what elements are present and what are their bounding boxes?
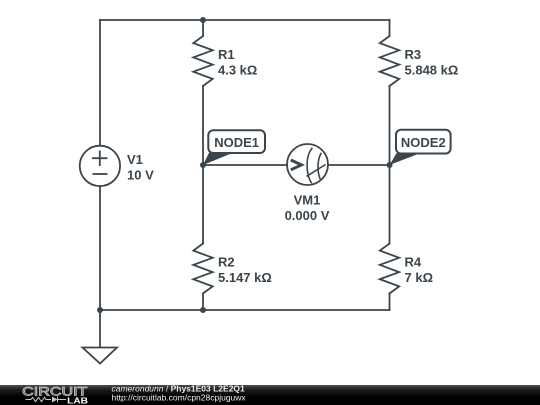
node NODE1 junction dot xyxy=(200,162,206,168)
voltmeter needle line xyxy=(306,165,325,177)
svg-text:LAB: LAB xyxy=(67,396,88,405)
svg-text:NODE2: NODE2 xyxy=(401,135,446,150)
svg-text:10 V: 10 V xyxy=(127,167,154,182)
resistor R4 zigzag xyxy=(380,244,399,294)
footer bar xyxy=(0,385,540,405)
junction dot bottom rail / R2 xyxy=(200,307,206,313)
wire R1 top stub xyxy=(202,20,204,36)
wire R3 to NODE2 xyxy=(389,86,391,165)
node label NODE1 box xyxy=(208,130,265,153)
wire R1 to NODE1 xyxy=(202,86,204,165)
V1 minus sign xyxy=(93,173,106,175)
svg-text:7 kΩ: 7 kΩ xyxy=(405,270,434,285)
resistor R3 zigzag xyxy=(380,36,399,86)
footer logo diode xyxy=(52,397,58,403)
ground symbol xyxy=(83,348,118,364)
voltage source V1 circle xyxy=(80,146,120,186)
voltmeter greater-than glyph xyxy=(291,160,302,170)
svg-text:R1: R1 xyxy=(218,47,235,62)
V1 plus sign xyxy=(93,151,107,165)
svg-text:R2: R2 xyxy=(218,255,235,270)
svg-text:V1: V1 xyxy=(127,152,143,167)
wire left rail top (top rail to V1) xyxy=(99,20,101,146)
junction dot bottom rail / ground xyxy=(97,307,103,313)
svg-text:0.000 V: 0.000 V xyxy=(285,208,330,223)
svg-text:R3: R3 xyxy=(405,47,422,62)
wire NODE1 to voltmeter xyxy=(203,164,287,166)
resistor R1 zigzag xyxy=(193,36,212,86)
voltmeter arc 2 xyxy=(318,154,321,180)
footer logo resistor squiggle xyxy=(26,397,52,401)
svg-text:NODE1: NODE1 xyxy=(214,135,259,150)
svg-text:R4: R4 xyxy=(405,255,422,270)
svg-text:http://circuitlab.com/cpn28cpj: http://circuitlab.com/cpn28cpjuguwx xyxy=(112,392,247,402)
wire bottom rail xyxy=(100,309,390,311)
svg-text:VM1: VM1 xyxy=(294,193,321,208)
wire ground stem xyxy=(99,310,101,348)
junction dot top rail / R1 xyxy=(200,17,206,23)
node label NODE2 box xyxy=(396,130,451,154)
voltmeter arc 1 xyxy=(307,148,312,182)
voltmeter VM1 circle xyxy=(287,144,328,185)
wire R2 bottom stub xyxy=(202,294,204,311)
NODE2 pointer triangle xyxy=(390,153,421,165)
wire top rail xyxy=(100,19,390,21)
wire R4 top stub xyxy=(389,165,391,244)
resistor R2 zigzag xyxy=(193,244,212,294)
wire left rail bottom (V1 to bottom rail) xyxy=(99,186,101,310)
svg-text:5.848 kΩ: 5.848 kΩ xyxy=(405,63,459,78)
wire voltmeter to NODE2 xyxy=(328,164,390,166)
NODE1 pointer triangle xyxy=(203,153,233,165)
node NODE2 junction dot xyxy=(387,162,393,168)
svg-text:4.3 kΩ: 4.3 kΩ xyxy=(218,63,257,78)
wire R4 bottom stub xyxy=(389,294,391,311)
wire R3 top stub xyxy=(389,20,391,36)
svg-text:5.147 kΩ: 5.147 kΩ xyxy=(218,270,272,285)
wire R2 top stub xyxy=(202,165,204,244)
